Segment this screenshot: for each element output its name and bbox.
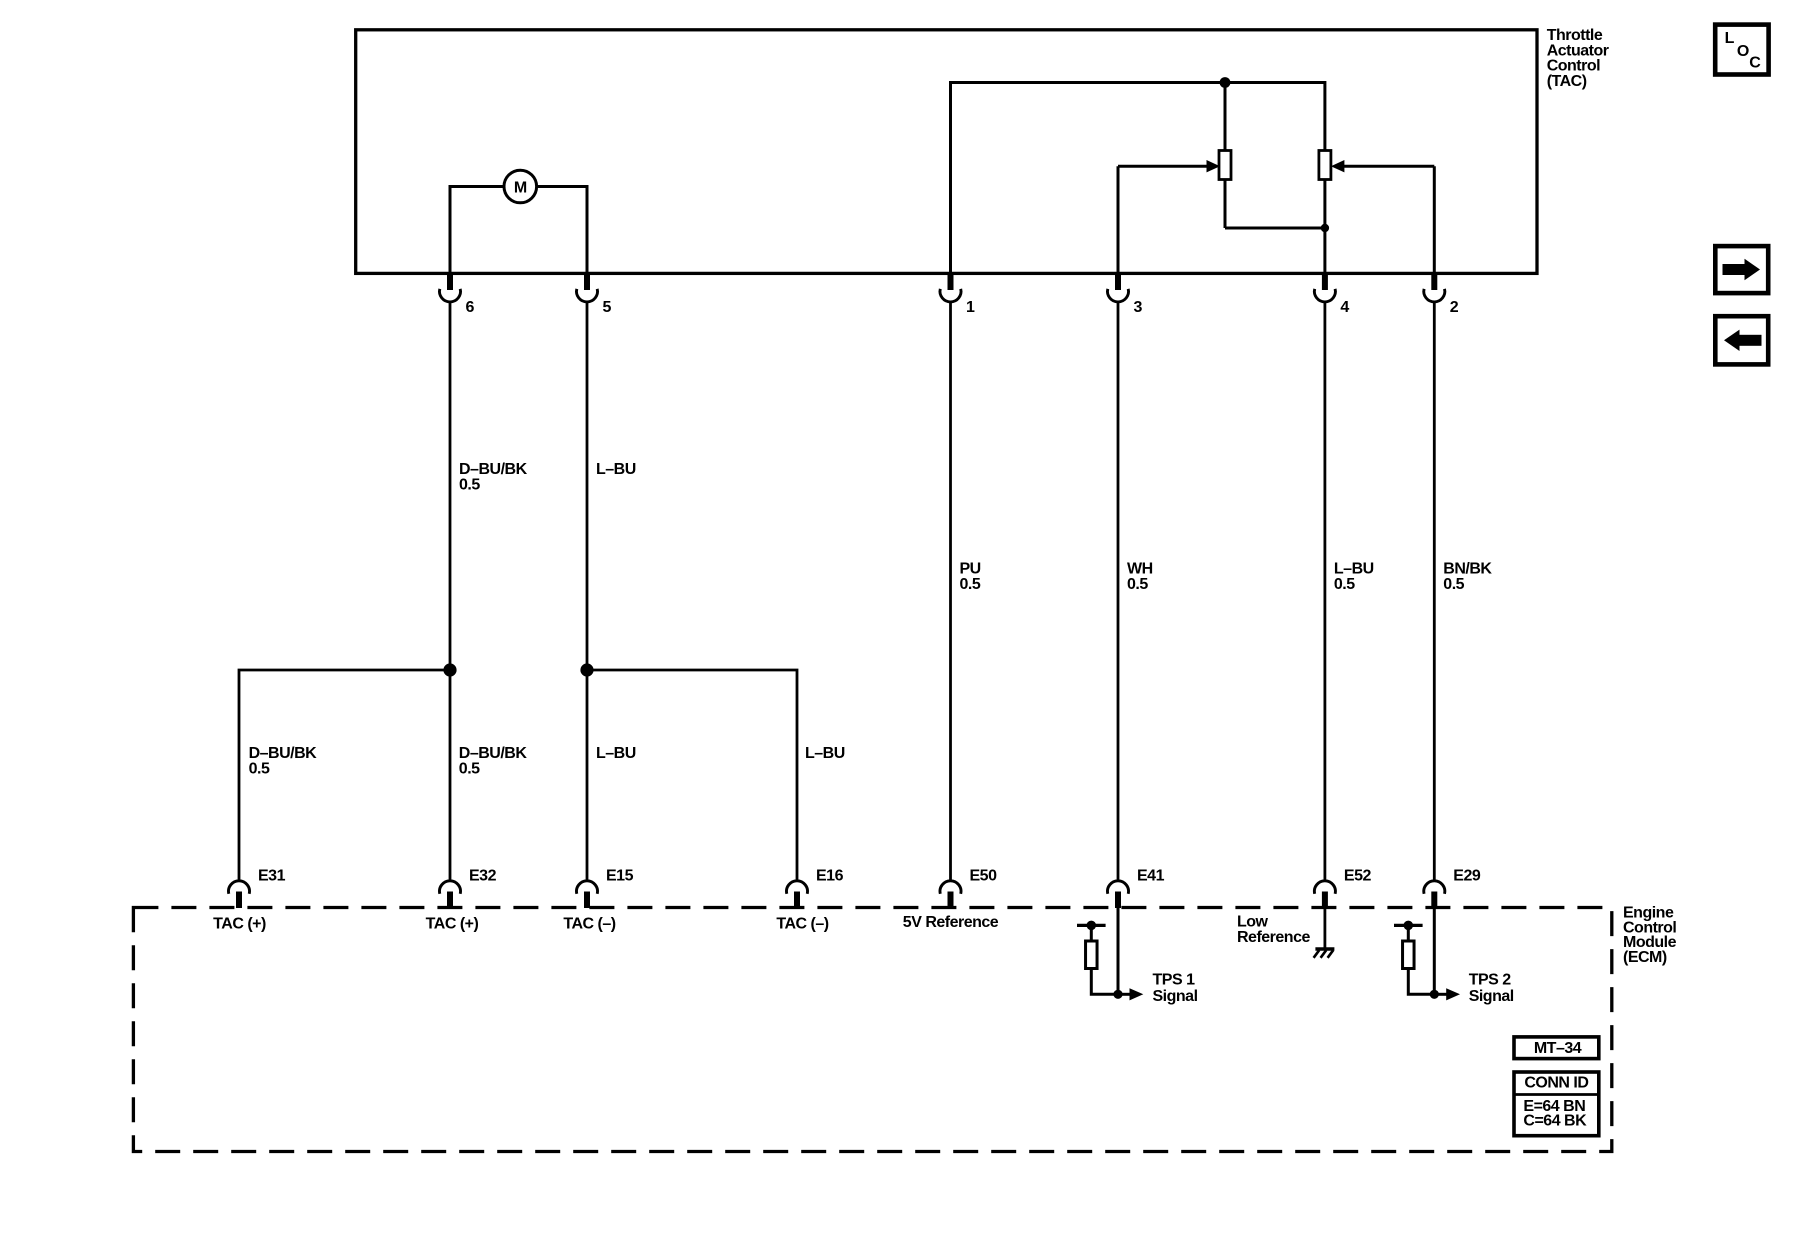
- svg-text:(ECM): (ECM): [1623, 949, 1667, 966]
- svg-text:0.5: 0.5: [459, 761, 480, 778]
- svg-text:Signal: Signal: [1469, 988, 1514, 1005]
- svg-text:4: 4: [1340, 299, 1349, 316]
- svg-text:TAC (–): TAC (–): [563, 916, 615, 933]
- svg-text:0.5: 0.5: [459, 477, 480, 494]
- svg-text:E31: E31: [258, 868, 286, 885]
- svg-text:E41: E41: [1137, 868, 1165, 885]
- svg-text:6: 6: [466, 299, 475, 316]
- svg-text:Reference: Reference: [1237, 929, 1310, 946]
- svg-text:L–BU: L–BU: [805, 745, 845, 762]
- svg-text:D–BU/BK: D–BU/BK: [459, 461, 528, 478]
- svg-text:Control: Control: [1547, 58, 1600, 75]
- svg-text:2: 2: [1450, 299, 1459, 316]
- svg-text:0.5: 0.5: [1443, 576, 1464, 593]
- svg-text:BN/BK: BN/BK: [1443, 560, 1492, 577]
- svg-text:WH: WH: [1127, 560, 1153, 577]
- svg-text:E16: E16: [816, 868, 844, 885]
- svg-text:Signal: Signal: [1153, 988, 1198, 1005]
- svg-text:TPS 1: TPS 1: [1153, 972, 1196, 989]
- svg-text:O: O: [1737, 43, 1749, 60]
- svg-text:0.5: 0.5: [960, 576, 981, 593]
- svg-text:D–BU/BK: D–BU/BK: [459, 745, 528, 762]
- svg-text:Low: Low: [1237, 914, 1269, 931]
- svg-text:C=64 BK: C=64 BK: [1523, 1113, 1587, 1130]
- svg-text:M: M: [514, 180, 527, 197]
- svg-text:TAC (–): TAC (–): [776, 916, 828, 933]
- svg-text:TAC (+): TAC (+): [213, 916, 266, 933]
- svg-text:3: 3: [1134, 299, 1143, 316]
- svg-text:E32: E32: [469, 868, 497, 885]
- svg-text:C: C: [1749, 54, 1761, 71]
- svg-text:D–BU/BK: D–BU/BK: [249, 745, 318, 762]
- svg-text:L: L: [1725, 30, 1735, 47]
- svg-text:MT–34: MT–34: [1534, 1040, 1582, 1057]
- svg-text:L–BU: L–BU: [596, 461, 636, 478]
- svg-text:1: 1: [966, 299, 975, 316]
- svg-text:L–BU: L–BU: [596, 745, 636, 762]
- svg-text:Actuator: Actuator: [1547, 42, 1609, 59]
- svg-text:CONN ID: CONN ID: [1524, 1075, 1588, 1092]
- svg-text:(TAC): (TAC): [1547, 73, 1587, 90]
- svg-text:0.5: 0.5: [1127, 576, 1148, 593]
- svg-text:5: 5: [603, 299, 612, 316]
- svg-text:TPS 2: TPS 2: [1469, 972, 1512, 989]
- svg-text:0.5: 0.5: [1334, 576, 1355, 593]
- svg-text:PU: PU: [960, 560, 981, 577]
- svg-text:Throttle: Throttle: [1547, 27, 1603, 44]
- svg-text:E29: E29: [1453, 868, 1481, 885]
- svg-text:TAC (+): TAC (+): [426, 916, 479, 933]
- svg-text:E52: E52: [1344, 868, 1372, 885]
- svg-text:L–BU: L–BU: [1334, 560, 1374, 577]
- svg-text:E50: E50: [970, 868, 998, 885]
- svg-text:5V Reference: 5V Reference: [903, 914, 999, 931]
- svg-text:0.5: 0.5: [249, 761, 270, 778]
- svg-text:E15: E15: [606, 868, 634, 885]
